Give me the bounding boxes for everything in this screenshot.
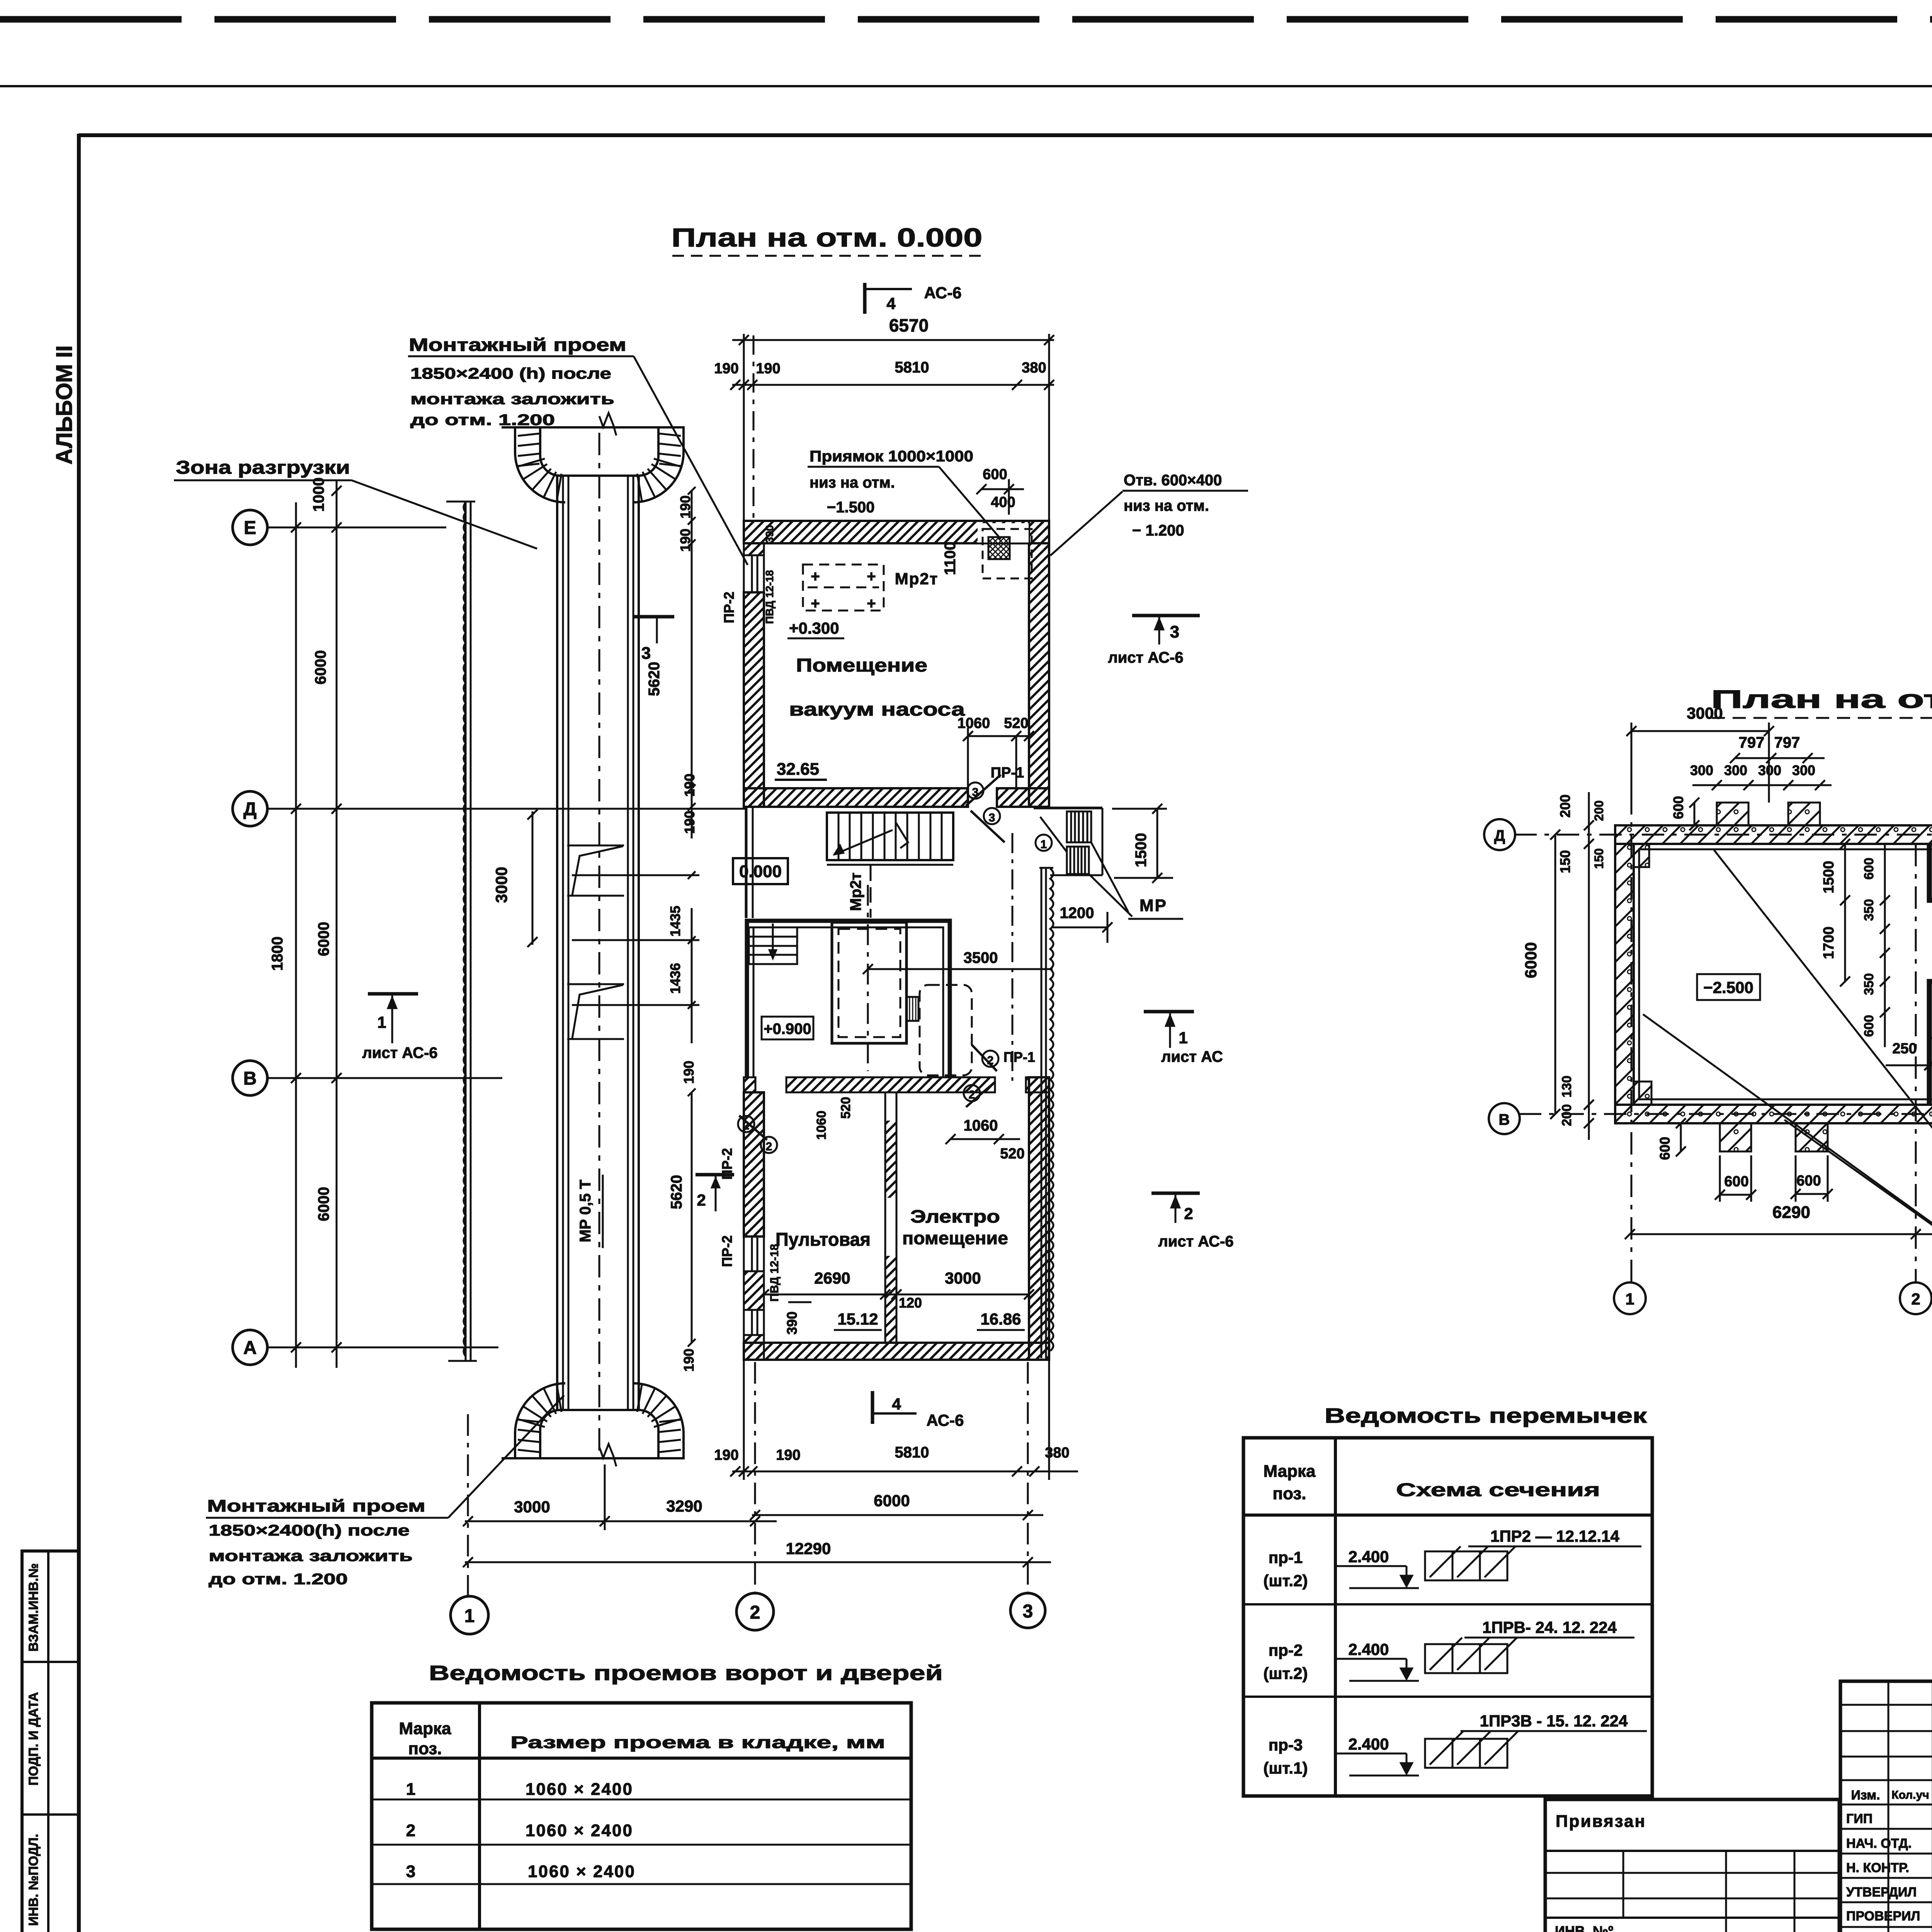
dim 600 rot c	[1862, 858, 1876, 880]
svg-text:3: 3	[406, 1862, 415, 1881]
left stamp strip	[22, 1551, 79, 1932]
scan registration dashes top	[0, 16, 1932, 23]
stamp label ВЗАМ.ИНВ.№	[26, 1563, 41, 1652]
label 16.86	[977, 1310, 1025, 1330]
svg-text:190: 190	[714, 1447, 738, 1463]
axis circle 2	[736, 1593, 774, 1630]
top block bottom wall right part	[997, 788, 1049, 807]
svg-text:ПРОВЕРИЛ: ПРОВЕРИЛ	[1846, 1909, 1920, 1923]
openings row 3	[406, 1862, 636, 1881]
dim 5620 bottom rot	[668, 1088, 696, 1347]
dim 1800	[269, 937, 286, 971]
svg-text:(шт.2): (шт.2)	[1264, 1571, 1308, 1590]
svg-text:В: В	[243, 1068, 257, 1089]
axis line 2 bottom	[754, 1362, 756, 1594]
section mark 2 right	[1151, 1193, 1234, 1250]
svg-text:3: 3	[641, 644, 651, 663]
axis line 3 bottom	[1027, 1362, 1029, 1593]
svg-text:190: 190	[756, 361, 780, 377]
svg-text:Мр2т: Мр2т	[895, 570, 939, 588]
dim 600 pit1	[1715, 1155, 1756, 1202]
svg-text:В: В	[1499, 1111, 1510, 1128]
svg-text:200: 200	[1557, 794, 1573, 818]
svg-text:3: 3	[1023, 1601, 1033, 1622]
extension lines 1435	[572, 875, 699, 1005]
equipment 2 dashed	[920, 985, 972, 1075]
label +0.300	[787, 619, 844, 638]
leader fan lines	[1643, 850, 1932, 1349]
svg-text:2: 2	[766, 1140, 772, 1153]
dim 3000 basement	[1626, 704, 1774, 803]
signature row ГИП	[1846, 1803, 1932, 1826]
svg-text:ПР-1: ПР-1	[1003, 1049, 1035, 1065]
svg-text:3: 3	[989, 811, 995, 824]
svg-text:15.12: 15.12	[837, 1310, 878, 1328]
svg-text:до отм. 1.200: до отм. 1.200	[410, 412, 555, 429]
svg-text:190: 190	[714, 361, 738, 377]
basement top wall	[1615, 825, 1932, 844]
dim 150 rot	[1557, 850, 1573, 873]
svg-text:Привязан: Привязан	[1556, 1812, 1646, 1831]
svg-text:2: 2	[743, 1119, 750, 1132]
label PR-2 rot bottom2	[719, 1148, 735, 1180]
svg-text:400: 400	[991, 494, 1015, 510]
bottom dim 3000 3290	[463, 1464, 777, 1530]
svg-text:+: +	[811, 568, 820, 585]
opening PV bottom 1	[744, 1236, 764, 1271]
break mark top	[599, 413, 616, 435]
wall centerline right	[1012, 833, 1014, 1081]
svg-text:5620: 5620	[668, 1175, 685, 1209]
corner step top left	[1634, 844, 1649, 867]
bottom dim 6000	[750, 1492, 1043, 1520]
door circle 3a	[967, 782, 983, 799]
title block privyazan box	[1545, 1799, 1839, 1932]
label montazhny proem top	[408, 335, 748, 565]
axis circle V2	[1489, 1103, 1520, 1134]
rail break symbol lower	[567, 984, 624, 1039]
svg-text:Д: Д	[1494, 827, 1505, 844]
signature row УТВЕРДИЛ	[1846, 1876, 1932, 1900]
dim 600 rot top	[1670, 796, 1699, 830]
dim 6000 b	[315, 922, 332, 956]
svg-text:А: А	[243, 1338, 257, 1358]
svg-text:3: 3	[1170, 622, 1179, 641]
svg-text:пр-3: пр-3	[1269, 1736, 1303, 1754]
dim 200 rot	[1557, 794, 1573, 818]
corridor left wall line	[746, 807, 753, 918]
middle block walls	[747, 921, 950, 1077]
platform strip right	[1039, 868, 1053, 1358]
level mark 0.000	[733, 858, 788, 884]
dim 797 797	[1730, 734, 1825, 763]
svg-text:лист АС-6: лист АС-6	[1108, 649, 1183, 666]
basement partition	[1929, 844, 1932, 1105]
room dim line	[759, 1289, 1034, 1299]
svg-text:2: 2	[406, 1821, 415, 1840]
svg-text:1060 × 2400: 1060 × 2400	[526, 1780, 633, 1799]
svg-text:низ на отм.: низ на отм.	[1124, 497, 1209, 514]
svg-text:190: 190	[681, 1061, 697, 1084]
door circle 2b	[964, 1085, 980, 1101]
label Mr2t top	[895, 570, 939, 588]
break mark bottom	[599, 1444, 616, 1466]
dim 520 el	[1000, 1146, 1024, 1162]
bottom block top wall b	[786, 1077, 995, 1092]
label hermetic door	[1931, 760, 1932, 1039]
svg-text:ПР-1: ПР-1	[991, 765, 1024, 781]
svg-text:4: 4	[886, 294, 896, 313]
svg-text:АС-6: АС-6	[924, 284, 962, 302]
dim 3500	[863, 949, 1053, 974]
openings table frame	[372, 1703, 911, 1929]
svg-text:1060: 1060	[814, 1111, 829, 1140]
svg-text:АЛЬБОМ II: АЛЬБОМ II	[52, 345, 77, 464]
svg-text:520: 520	[838, 1097, 853, 1119]
axis 2 vertical	[1915, 844, 1917, 1282]
openings row 2	[406, 1821, 633, 1840]
openings header	[399, 1719, 885, 1758]
svg-text:вакуум насоса: вакуум насоса	[789, 699, 965, 720]
signature row Н. КОНТР.	[1846, 1852, 1932, 1875]
svg-text:32.65: 32.65	[777, 760, 819, 779]
svg-text:МР 0,5 Т: МР 0,5 Т	[577, 1180, 594, 1242]
dim 600 rot bottom	[1657, 1118, 1686, 1160]
svg-text:ПР-2: ПР-2	[719, 1235, 735, 1267]
door leaf electro	[966, 1082, 995, 1107]
corner step bottom left	[1634, 1082, 1651, 1105]
svg-text:Ведомость проемов вор: Ведомость проемов ворот и дверей	[429, 1662, 943, 1685]
dim 350 rot b	[1862, 973, 1876, 995]
bottom block left wall mid	[744, 1271, 764, 1310]
svg-text:1060 × 2400: 1060 × 2400	[528, 1862, 636, 1881]
label PR-1 middle	[1003, 1049, 1035, 1065]
svg-text:ИНВ. №ПОДЛ.: ИНВ. №ПОДЛ.	[26, 1834, 41, 1926]
svg-text:1060: 1060	[957, 715, 990, 731]
svg-text:Н. КОНТР.: Н. КОНТР.	[1846, 1861, 1909, 1875]
svg-text:2.400: 2.400	[1348, 1640, 1389, 1658]
label 32.65	[775, 760, 827, 780]
svg-text:Приямок 1000×1000: Приямок 1000×1000	[810, 448, 973, 465]
equipment 1 inner dashed	[838, 929, 900, 1037]
level mark -2.500	[1697, 974, 1760, 1000]
label PR-1 top	[991, 765, 1024, 781]
sheet top rule	[0, 85, 1932, 87]
openings row 1	[406, 1780, 633, 1799]
svg-text:3: 3	[972, 786, 979, 799]
dim 6290	[1625, 1203, 1932, 1239]
svg-text:3000: 3000	[945, 1269, 981, 1287]
svg-text:Д: Д	[243, 799, 257, 820]
svg-text:4: 4	[892, 1395, 901, 1413]
vent leaders	[1089, 842, 1183, 919]
dim 250 150	[1886, 1040, 1932, 1070]
svg-text:лист АС: лист АС	[1161, 1048, 1223, 1065]
svg-text:2690: 2690	[814, 1269, 850, 1287]
svg-text:2: 2	[750, 1602, 760, 1623]
top chute outer left	[515, 427, 565, 502]
svg-text:1ПР2 — 12.12.14: 1ПР2 — 12.12.14	[1490, 1527, 1619, 1545]
svg-text:390: 390	[764, 525, 776, 543]
label 15.12	[834, 1310, 882, 1330]
svg-text:−1.500: −1.500	[827, 499, 874, 516]
svg-text:Размер проема в кладке, мм: Размер проема в кладке, мм	[510, 1733, 885, 1752]
svg-text:+0.300: +0.300	[789, 619, 839, 637]
bottom block right wall	[1029, 1077, 1049, 1360]
svg-text:План на отм. 0.000: План на отм. 0.000	[672, 223, 983, 252]
vent enclosure	[1034, 808, 1102, 875]
svg-text:1200: 1200	[1060, 905, 1094, 922]
svg-text:12290: 12290	[786, 1539, 831, 1558]
svg-text:Монтажный проем: Монтажный проем	[409, 335, 626, 355]
svg-text:+: +	[867, 595, 876, 612]
top chute inner right	[639, 427, 658, 476]
svg-text:2.400: 2.400	[1348, 1735, 1389, 1753]
dim 3000 room	[945, 1269, 981, 1287]
top block left wall lower	[744, 592, 764, 807]
svg-text:6000: 6000	[315, 1187, 332, 1221]
axis A strip segment	[448, 1347, 498, 1349]
svg-text:2.400: 2.400	[1348, 1548, 1389, 1566]
vent grille lower	[1067, 847, 1089, 874]
vent door leaf	[1040, 817, 1067, 852]
door circle 1	[1036, 835, 1052, 851]
svg-text:300: 300	[1690, 762, 1713, 778]
dim 130 rot	[1560, 1076, 1574, 1098]
svg-text:300: 300	[1758, 762, 1781, 778]
dim 1000	[310, 478, 327, 512]
svg-text:150: 150	[1592, 848, 1606, 869]
svg-text:600: 600	[1862, 1015, 1876, 1037]
conveyor top chute line	[502, 426, 685, 429]
signature row НАЧ. ОТД.	[1846, 1828, 1932, 1851]
svg-text:ПР-2: ПР-2	[721, 592, 737, 623]
svg-text:1500: 1500	[1133, 833, 1150, 867]
left dim line basement	[1584, 792, 1594, 1140]
dim 200 rot b	[1560, 1104, 1574, 1126]
label PR-2 rot top	[721, 592, 737, 623]
svg-text:350: 350	[1862, 973, 1876, 995]
svg-text:+: +	[811, 595, 820, 612]
door circle 2c	[738, 1116, 754, 1132]
svg-text:6570: 6570	[889, 315, 929, 335]
stamp label ИНВ.№ПОДЛ.	[26, 1834, 41, 1926]
svg-text:130: 130	[1560, 1076, 1574, 1098]
axis D dash	[1514, 834, 1932, 836]
axis circle В	[233, 1061, 502, 1095]
bottom chute line	[502, 1457, 685, 1459]
lintel table frame	[1243, 1438, 1652, 1796]
dim 1060 rot left	[814, 1111, 829, 1140]
section mark 3 left	[634, 617, 674, 663]
dim 150 rot top2	[1592, 848, 1606, 869]
rail centerline	[599, 433, 600, 1453]
building centerline top	[753, 335, 755, 521]
svg-text:Изм.: Изм.	[1851, 1788, 1880, 1803]
dim 1700 rot bas	[1821, 900, 1850, 986]
svg-text:190: 190	[677, 495, 693, 519]
door circle 2d	[761, 1137, 777, 1153]
svg-text:лист АС-6: лист АС-6	[362, 1044, 437, 1061]
svg-text:2: 2	[1184, 1204, 1193, 1223]
svg-text:1: 1	[377, 1013, 386, 1031]
svg-text:1700: 1700	[1821, 927, 1837, 959]
top block right wall	[1029, 521, 1049, 807]
svg-text:3500: 3500	[964, 949, 998, 966]
top chute outer right	[633, 427, 684, 502]
dim 190 bottom pair	[681, 1061, 697, 1372]
dim 1500 rot bas	[1821, 839, 1850, 905]
dim 5620 rot	[646, 662, 663, 696]
svg-text:600: 600	[1670, 796, 1686, 819]
basement bottom wall	[1615, 1105, 1932, 1123]
window PV opening left wall	[744, 555, 764, 592]
middle block stairs	[749, 923, 797, 964]
equipment 1 outline	[832, 922, 906, 1043]
svg-text:5620: 5620	[646, 662, 663, 696]
dim 300 x4	[1690, 762, 1832, 790]
door swing control room a	[739, 1116, 767, 1140]
top block top wall	[744, 521, 1049, 543]
axis circle Д	[233, 791, 745, 826]
svg-text:1: 1	[1041, 838, 1047, 851]
label montazhny proem bottom	[206, 1395, 564, 1588]
top dim line 6570	[732, 315, 1054, 521]
pilaster top 2	[1788, 803, 1820, 825]
svg-text:300: 300	[1792, 762, 1815, 778]
svg-text:до отм. 1.200: до отм. 1.200	[209, 1571, 348, 1588]
svg-text:пр-1: пр-1	[1269, 1548, 1303, 1566]
svg-text:Помещение: Помещение	[796, 655, 927, 676]
svg-text:Марка: Марка	[399, 1719, 451, 1738]
dim 3000 conveyor	[492, 810, 537, 947]
svg-text:600: 600	[1796, 1173, 1821, 1189]
bottom block top wall a	[744, 1077, 755, 1092]
section mark 2 left	[696, 1175, 734, 1211]
svg-text:+: +	[867, 568, 876, 585]
svg-text:1: 1	[1625, 1290, 1634, 1308]
svg-text:5810: 5810	[895, 1444, 929, 1461]
pit grate crosshatch	[988, 537, 1010, 559]
svg-text:Монтажный проем: Монтажный проем	[207, 1497, 425, 1515]
svg-text:Мр2т: Мр2т	[847, 872, 864, 911]
partition wall	[885, 1092, 896, 1343]
svg-text:1850×2400 (h) после: 1850×2400 (h) после	[410, 365, 611, 382]
svg-text:6000: 6000	[874, 1492, 910, 1510]
svg-text:1ПРВ- 24. 12. 224: 1ПРВ- 24. 12. 224	[1482, 1618, 1617, 1636]
svg-text:+0.900: +0.900	[764, 1020, 811, 1037]
dim 350 rot a	[1862, 899, 1876, 921]
section mark 4 top	[865, 283, 961, 314]
rail lines	[557, 476, 639, 1410]
svg-text:(шт.1): (шт.1)	[1264, 1759, 1308, 1777]
pilaster bottom 1	[1720, 1123, 1751, 1151]
door PR-1 top block	[966, 775, 1005, 842]
svg-text:− 1.200: − 1.200	[1132, 522, 1184, 539]
equipment connector	[906, 997, 918, 1021]
dim 1200	[1053, 905, 1112, 943]
dim 400 near pit	[991, 479, 1015, 515]
dim 390 rot	[784, 1302, 811, 1335]
section mark 4 bottom	[872, 1391, 964, 1429]
svg-text:поз.: поз.	[408, 1739, 442, 1758]
svg-text:1800: 1800	[269, 937, 286, 971]
bottom block left wall	[744, 1092, 764, 1236]
platform strip left	[446, 502, 477, 1361]
svg-text:3000: 3000	[1687, 704, 1723, 722]
bottom chute inner right	[639, 1410, 658, 1458]
label PVD rot top	[764, 525, 776, 624]
svg-text:1060 × 2400: 1060 × 2400	[526, 1821, 633, 1840]
vacuum pump equipment dashed	[803, 565, 884, 612]
svg-text:(шт.2): (шт.2)	[1264, 1664, 1308, 1682]
section mark 1 left	[362, 994, 437, 1061]
pit pryamok dashed	[978, 523, 1032, 578]
dim 190 pair mid	[682, 774, 697, 834]
svg-text:190: 190	[677, 529, 693, 552]
rail break symbol upper	[567, 845, 624, 896]
svg-text:1: 1	[1179, 1029, 1187, 1047]
svg-text:пр-2: пр-2	[1269, 1641, 1303, 1659]
bottom dim 190 190 5810 380	[714, 1360, 1078, 1480]
bottom chute outer right	[633, 1383, 684, 1458]
lintel table title	[1325, 1404, 1647, 1427]
svg-text:Зона разгрузки: Зона разгрузки	[176, 457, 350, 478]
room label vacuum	[789, 655, 965, 720]
svg-text:190: 190	[776, 1447, 800, 1463]
svg-text:380: 380	[1022, 360, 1046, 376]
axis circle 1b	[1614, 1282, 1646, 1314]
svg-text:ПР-2: ПР-2	[719, 1148, 735, 1180]
bottom block top wall c	[1026, 1077, 1049, 1092]
svg-text:6290: 6290	[1772, 1203, 1810, 1222]
dim 120	[899, 1295, 922, 1311]
label zone razgruzki	[174, 457, 537, 549]
top chute inner left	[540, 427, 560, 476]
svg-text:250: 250	[1892, 1041, 1917, 1057]
left plan title	[672, 223, 986, 256]
lintel header	[1263, 1462, 1600, 1503]
svg-text:3000: 3000	[492, 867, 510, 903]
svg-text:6000: 6000	[1522, 942, 1540, 978]
dim 520 rot left	[838, 1097, 853, 1119]
dim 1060 520 vac	[957, 715, 1034, 788]
svg-text:План на отм −2.500 и −2.600: План на отм −2.500 и −2.600	[1711, 685, 1932, 713]
inner wall line	[1639, 849, 1932, 1099]
svg-text:797: 797	[1739, 734, 1765, 751]
svg-text:АС-6: АС-6	[927, 1411, 964, 1429]
svg-text:1500: 1500	[1821, 861, 1837, 894]
svg-text:лист АС-6: лист АС-6	[1158, 1233, 1233, 1250]
dim 600 rot d	[1862, 844, 1890, 1047]
svg-text:3000: 3000	[514, 1498, 550, 1516]
svg-text:150: 150	[1557, 850, 1573, 873]
svg-text:1060: 1060	[964, 1117, 998, 1134]
section mark 1 right	[1144, 1012, 1223, 1065]
svg-text:Электро: Электро	[910, 1206, 1000, 1226]
svg-text:2: 2	[697, 1191, 706, 1209]
axis circle А	[233, 1330, 498, 1365]
svg-text:1: 1	[464, 1606, 475, 1626]
dim 200 rot top2	[1592, 800, 1606, 821]
svg-text:помещение: помещение	[902, 1228, 1008, 1248]
svg-text:Пультовая: Пультовая	[776, 1230, 871, 1250]
lintel row pr-2	[1264, 1618, 1634, 1682]
left dim line outer	[291, 502, 301, 1368]
svg-text:1: 1	[406, 1780, 415, 1799]
top block bottom wall left part	[744, 788, 968, 807]
svg-text:1ПР3В - 15. 12. 224: 1ПР3В - 15. 12. 224	[1480, 1712, 1628, 1730]
